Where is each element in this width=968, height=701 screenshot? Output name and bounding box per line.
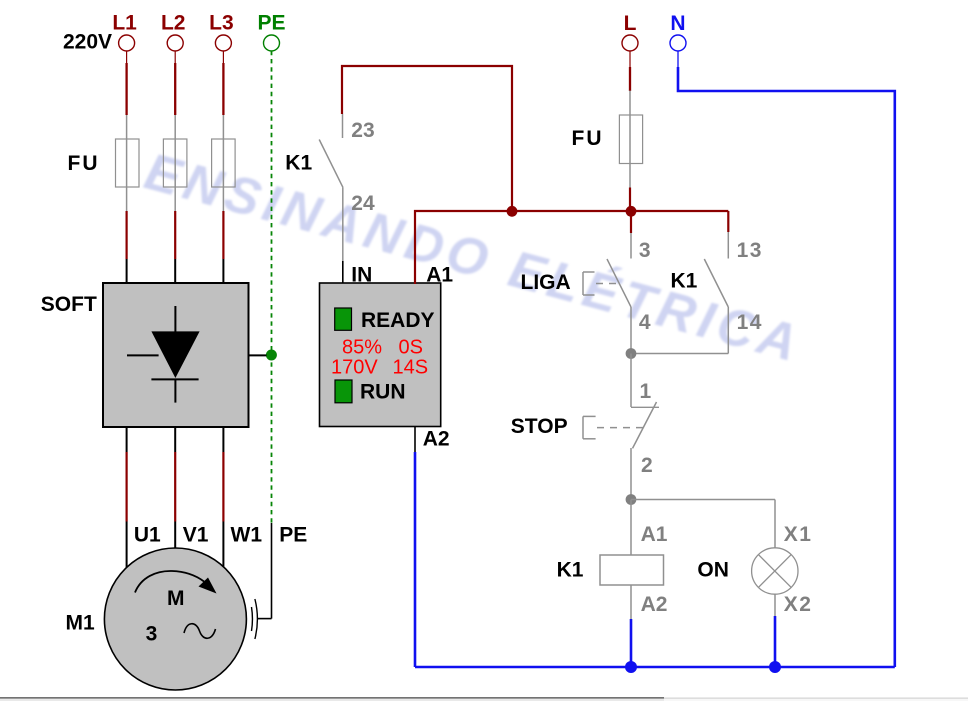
window bottom edge xyxy=(0,697,968,701)
fuse FU (L2) xyxy=(163,139,187,187)
LED RUN xyxy=(335,380,352,403)
svg-text:170V: 170V xyxy=(331,356,378,378)
svg-text:85%: 85% xyxy=(342,337,382,359)
svg-text:PE: PE xyxy=(279,524,307,547)
contact K1 23/24 xyxy=(319,114,343,284)
svg-text:FU: FU xyxy=(68,152,100,175)
wire neutral bottom xyxy=(415,666,895,669)
svg-text:2: 2 xyxy=(641,454,653,477)
contact K1 13/14 xyxy=(631,211,728,354)
thyristor symbol xyxy=(127,306,200,403)
node neutral K1 xyxy=(625,661,637,673)
soft starter block SOFT xyxy=(41,283,249,427)
wire L3 xyxy=(222,51,224,284)
wire L2 xyxy=(174,51,176,284)
wire V1 xyxy=(174,427,176,552)
svg-text:L2: L2 xyxy=(161,12,186,35)
wire SOFT to PE node xyxy=(249,354,267,356)
svg-text:A1: A1 xyxy=(426,264,453,287)
lamp ON xyxy=(752,500,798,668)
wire W1 xyxy=(222,427,224,572)
wire N xyxy=(677,51,679,67)
svg-text:RUN: RUN xyxy=(360,381,406,404)
svg-text:ON: ON xyxy=(697,559,729,582)
svg-text:23: 23 xyxy=(351,119,374,142)
node junction coil/lamp xyxy=(626,494,637,505)
LED READY xyxy=(335,308,352,330)
svg-text:L: L xyxy=(624,12,637,35)
terminal N xyxy=(670,12,686,51)
wire A1 to rail xyxy=(415,211,512,284)
node junction LIGA/K1 xyxy=(626,348,637,359)
coil K1 xyxy=(600,500,664,668)
terminal L2 xyxy=(161,12,186,52)
wire A2 down xyxy=(414,427,416,668)
svg-text:A2: A2 xyxy=(641,593,668,616)
svg-text:K1: K1 xyxy=(285,152,312,175)
svg-text:K1: K1 xyxy=(671,270,698,293)
fuse FU control xyxy=(619,115,642,164)
svg-text:A2: A2 xyxy=(423,428,450,451)
svg-text:W1: W1 xyxy=(231,524,263,547)
svg-text:A1: A1 xyxy=(641,523,668,546)
terminal PE xyxy=(257,12,285,52)
PE connection to motor frame xyxy=(252,523,272,639)
wire 23 feed loop xyxy=(342,66,512,211)
svg-text:V1: V1 xyxy=(183,524,209,547)
svg-text:M: M xyxy=(167,587,185,610)
svg-text:U1: U1 xyxy=(134,524,161,547)
svg-text:14S: 14S xyxy=(393,356,429,378)
svg-text:FU: FU xyxy=(572,127,604,150)
svg-text:LIGA: LIGA xyxy=(521,271,571,294)
svg-text:24: 24 xyxy=(351,192,375,215)
wire control rail xyxy=(512,210,728,212)
svg-text:SOFT: SOFT xyxy=(41,293,97,316)
svg-text:3: 3 xyxy=(639,239,651,262)
svg-text:220V: 220V xyxy=(63,31,112,54)
svg-text:PE: PE xyxy=(257,12,285,35)
wire L xyxy=(629,51,631,211)
fuse FU (L1) xyxy=(116,139,140,187)
svg-text:READY: READY xyxy=(361,309,435,332)
node neutral lamp xyxy=(769,661,781,673)
svg-text:L3: L3 xyxy=(209,12,234,35)
push button LIGA xyxy=(583,211,631,354)
svg-text:M1: M1 xyxy=(66,612,95,635)
svg-text:3: 3 xyxy=(146,623,158,646)
wire PE dashed xyxy=(271,51,273,523)
terminal L3 xyxy=(209,12,234,52)
svg-text:L1: L1 xyxy=(112,12,137,35)
svg-text:K1: K1 xyxy=(557,559,584,582)
svg-text:STOP: STOP xyxy=(511,415,568,438)
wire L1 xyxy=(126,51,128,284)
svg-text:1: 1 xyxy=(640,380,652,403)
svg-text:0S: 0S xyxy=(399,337,423,359)
wire node to lamp branch xyxy=(631,499,775,501)
push button STOP xyxy=(583,354,659,500)
wire U1 xyxy=(126,427,128,572)
terminal L1 xyxy=(112,12,137,52)
terminal L xyxy=(622,12,638,51)
svg-text:X2: X2 xyxy=(784,593,813,616)
fuse FU (L3) xyxy=(212,139,236,187)
node PE green junction xyxy=(266,350,277,361)
svg-text:14: 14 xyxy=(737,311,763,334)
svg-text:13: 13 xyxy=(737,239,763,262)
svg-text:N: N xyxy=(670,12,685,35)
node junction L rail xyxy=(626,206,637,217)
svg-text:IN: IN xyxy=(351,264,372,287)
node junction A1 rail xyxy=(507,206,518,217)
motor M1 xyxy=(104,548,246,690)
soft starter control box xyxy=(320,283,441,427)
svg-text:4: 4 xyxy=(639,311,651,334)
svg-text:X1: X1 xyxy=(784,523,813,546)
